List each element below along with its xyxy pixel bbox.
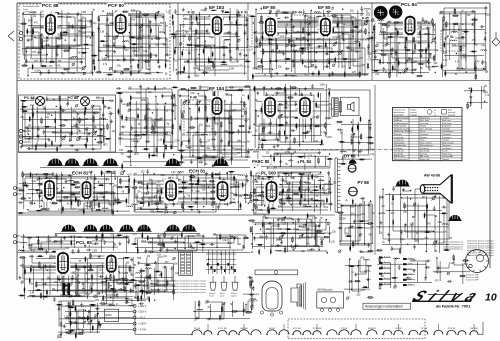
resistor <box>424 231 431 233</box>
resistor <box>329 90 331 97</box>
potentiometer <box>278 199 283 204</box>
capacitor <box>311 84 314 89</box>
resistor <box>18 295 25 297</box>
capacitor <box>406 58 409 63</box>
ground <box>176 192 179 196</box>
value label <box>28 20 33 22</box>
capacitor <box>41 197 44 202</box>
node <box>251 243 252 244</box>
value label <box>253 300 258 302</box>
capacitor <box>354 40 359 43</box>
value label <box>345 234 350 236</box>
resistor <box>228 132 235 134</box>
capacitor <box>324 66 329 69</box>
svg-text:0,1μ: 0,1μ <box>485 94 490 96</box>
resistor <box>38 99 45 101</box>
resistor <box>366 223 373 225</box>
coil <box>145 74 151 75</box>
trimmer <box>359 30 362 33</box>
node <box>308 158 309 159</box>
ground <box>282 52 285 56</box>
value label <box>126 262 129 264</box>
svg-text:2,2M: 2,2M <box>449 263 454 265</box>
coil <box>275 250 281 251</box>
node <box>283 180 284 181</box>
value label <box>462 55 467 57</box>
capacitor <box>118 288 123 291</box>
node <box>260 229 261 230</box>
wire mesh <box>441 8 486 77</box>
PABC 80 label <box>251 159 271 164</box>
resistor <box>52 188 59 190</box>
resistor <box>372 70 379 72</box>
value label <box>158 140 163 142</box>
value label <box>147 256 150 258</box>
potentiometer <box>431 196 436 201</box>
capacitor <box>253 162 258 165</box>
svg-text:100k: 100k <box>136 92 142 94</box>
ground <box>69 138 72 142</box>
resistor <box>40 65 47 67</box>
trimmer <box>222 302 225 305</box>
electrolytic <box>424 212 425 218</box>
triode ECC (sync) <box>71 170 92 200</box>
value label <box>188 196 191 198</box>
resistor <box>258 22 265 24</box>
coil <box>268 33 274 34</box>
ground <box>265 103 268 107</box>
capacitor <box>198 161 203 164</box>
svg-text:1M: 1M <box>229 123 232 125</box>
resistor <box>41 43 43 50</box>
svg-text:mit PF-Umlage: mit PF-Umlage <box>23 10 38 13</box>
resistor <box>75 196 77 203</box>
trimmer <box>250 305 253 308</box>
value label <box>429 69 432 71</box>
node <box>115 178 116 179</box>
wire mesh <box>21 98 104 149</box>
Silva logo <box>408 288 496 305</box>
capacitor <box>244 30 247 35</box>
resistor <box>380 54 387 56</box>
coil <box>126 282 132 283</box>
svg-text:2,2M: 2,2M <box>461 58 466 60</box>
value label <box>150 211 155 213</box>
value label <box>161 175 166 177</box>
value label <box>135 25 138 27</box>
value label <box>307 244 310 246</box>
resistor <box>64 285 71 287</box>
resistor <box>177 191 184 193</box>
capacitor <box>157 279 160 284</box>
wire mesh <box>197 302 246 319</box>
resistor <box>121 163 123 170</box>
wire mesh <box>138 257 174 299</box>
capacitor <box>194 117 199 120</box>
capacitor <box>99 193 104 196</box>
resistor <box>93 112 100 114</box>
capacitor <box>40 189 43 194</box>
wire bus <box>439 11 486 77</box>
svg-text:Focus: Focus <box>420 131 426 133</box>
value label <box>134 297 137 299</box>
value label <box>486 15 492 17</box>
value label <box>182 135 185 137</box>
node <box>157 72 158 73</box>
coil <box>451 40 457 41</box>
svg-text:2,2M: 2,2M <box>312 218 317 220</box>
resistor <box>38 238 40 245</box>
value label <box>118 283 123 285</box>
electrolytic <box>149 296 150 302</box>
resistor <box>98 320 100 327</box>
capacitor <box>425 260 430 263</box>
capacitor <box>159 247 162 252</box>
output pentode EL 95 <box>298 96 313 119</box>
value label <box>29 284 34 286</box>
ECH 81 second label <box>188 168 205 173</box>
value label <box>109 204 112 206</box>
capacitor <box>406 277 411 280</box>
value label <box>324 24 329 26</box>
node <box>433 231 434 232</box>
wire mesh <box>99 11 167 73</box>
capacitor <box>372 50 377 53</box>
node <box>184 248 185 249</box>
resistor <box>471 19 478 21</box>
wire junctions <box>24 25 93 74</box>
electrolytic <box>471 87 472 93</box>
electrolytic <box>393 219 394 225</box>
capacitor <box>433 206 436 211</box>
ground <box>68 46 71 50</box>
trimmer <box>375 44 378 47</box>
resistor <box>213 62 215 69</box>
capacitor <box>107 107 112 110</box>
value label <box>178 173 183 175</box>
node <box>192 155 193 156</box>
pentode EF 183 <box>208 5 225 37</box>
coil <box>29 295 35 296</box>
resistor <box>46 289 48 296</box>
capacitor <box>420 53 423 58</box>
svg-text:DY 86: DY 86 <box>395 328 402 330</box>
value label <box>324 207 329 209</box>
row divider bus <box>17 80 490 82</box>
value label <box>273 168 276 170</box>
svg-text:ECH 81: ECH 81 <box>368 328 376 330</box>
svg-text:Tonblende: Tonblende <box>394 140 404 142</box>
svg-text:Tension: Tension <box>442 159 450 161</box>
value label <box>82 17 87 19</box>
node <box>164 32 165 33</box>
focus unit blob <box>448 213 462 221</box>
resistor <box>104 138 111 140</box>
node <box>214 45 215 46</box>
flyback transformer core <box>335 158 337 212</box>
wire junctions <box>136 103 174 132</box>
resistor <box>275 193 282 195</box>
svg-text:Régl. tonalité: Régl. tonalité <box>442 141 455 144</box>
capacitor <box>277 223 280 228</box>
value label <box>156 182 161 184</box>
resistor <box>172 123 174 130</box>
resistor <box>138 281 145 283</box>
electrolytic <box>419 30 420 36</box>
coil <box>451 32 457 33</box>
capacitor <box>61 109 66 112</box>
trimmer <box>83 72 86 75</box>
node <box>56 106 57 107</box>
value label <box>390 54 393 56</box>
capacitor <box>383 67 386 72</box>
resistor <box>318 70 320 77</box>
resistor <box>91 30 93 37</box>
capacitor <box>304 14 307 19</box>
wire mesh <box>118 86 175 155</box>
trimmer <box>146 191 149 194</box>
resistor <box>398 59 400 66</box>
value label <box>64 289 69 291</box>
value label <box>193 133 198 135</box>
electrolytic <box>86 137 87 143</box>
resistor <box>211 172 213 179</box>
capacitor <box>327 171 330 176</box>
value label <box>93 127 98 129</box>
resistor <box>242 181 244 188</box>
resistor <box>284 86 286 93</box>
capacitor <box>68 174 73 177</box>
value label <box>136 197 139 199</box>
value label <box>162 180 165 182</box>
resistor <box>105 171 112 173</box>
svg-text:0,5M: 0,5M <box>35 71 40 73</box>
ground <box>103 104 106 108</box>
node <box>342 8 343 9</box>
resistor <box>279 233 286 235</box>
electrolytic <box>203 48 204 54</box>
ground <box>256 91 259 95</box>
resistor <box>90 200 97 202</box>
resistor <box>250 280 252 287</box>
capacitor <box>388 237 391 242</box>
value label <box>85 119 88 121</box>
resistor <box>124 285 126 292</box>
wire junctions <box>70 305 98 332</box>
value label <box>166 199 171 201</box>
value label <box>143 51 148 53</box>
schematic outer border right <box>489 3 491 268</box>
trimmer <box>287 188 290 191</box>
capacitor <box>273 102 276 107</box>
coil <box>197 309 203 310</box>
value label <box>51 256 56 258</box>
resistor <box>68 307 75 309</box>
resistor <box>276 43 278 50</box>
resistor <box>352 240 354 247</box>
Fabrik caption <box>436 304 471 309</box>
value label <box>45 117 50 119</box>
resistor <box>166 280 168 287</box>
resistor <box>48 61 55 63</box>
resistor <box>112 262 119 264</box>
value label <box>124 284 129 286</box>
node <box>296 38 297 39</box>
svg-text:PC 88: PC 88 <box>194 328 201 330</box>
dial caption <box>466 274 480 282</box>
wire junctions <box>173 14 238 60</box>
electrolytic <box>219 314 220 320</box>
value label <box>105 192 108 194</box>
wire bus <box>243 277 259 313</box>
resistor <box>181 202 183 209</box>
svg-text:0,5M: 0,5M <box>102 59 107 61</box>
node <box>208 186 209 187</box>
svg-text:0,1μ: 0,1μ <box>180 25 185 27</box>
triode-pentode PCL 84 <box>400 2 417 37</box>
coil <box>262 196 268 197</box>
node <box>53 99 54 100</box>
ground <box>233 236 236 240</box>
value label <box>351 206 356 208</box>
svg-text:1M: 1M <box>40 12 43 14</box>
node <box>203 206 204 207</box>
node <box>327 252 328 253</box>
coil <box>30 105 36 106</box>
electrolytic <box>270 248 271 254</box>
trimmer <box>332 64 335 67</box>
ground <box>253 51 256 55</box>
coil <box>226 95 232 96</box>
capacitor <box>274 92 279 95</box>
value label <box>340 219 345 221</box>
resistor <box>89 304 96 306</box>
wire bus <box>58 301 100 338</box>
svg-text:Klangregler: Klangregler <box>394 141 405 144</box>
resistor <box>393 22 400 24</box>
value label <box>229 23 234 25</box>
value label <box>317 107 322 109</box>
value label <box>58 61 63 63</box>
resistor <box>37 248 44 250</box>
wire mesh <box>254 216 332 253</box>
value label <box>351 50 356 52</box>
value label <box>327 189 330 191</box>
value label <box>164 286 167 288</box>
resistor <box>83 44 90 46</box>
ground <box>290 18 293 22</box>
ground <box>261 176 264 180</box>
ground <box>65 180 68 184</box>
FM speaker <box>291 282 305 310</box>
value label <box>255 100 258 102</box>
resistor <box>282 12 289 14</box>
electrolytic <box>212 51 213 57</box>
node <box>255 110 256 111</box>
svg-text:100k: 100k <box>159 32 165 34</box>
resistor <box>34 189 41 191</box>
resistor <box>171 87 178 89</box>
value label <box>118 138 123 140</box>
capacitor <box>75 123 78 128</box>
value label <box>121 283 126 285</box>
svg-text:EF 80: EF 80 <box>263 5 276 10</box>
electrolytic <box>264 197 265 203</box>
node <box>410 190 411 191</box>
resistor <box>17 212 24 214</box>
capacitor <box>337 129 342 132</box>
resistor <box>325 122 327 129</box>
wire mesh <box>468 86 484 106</box>
capacitor <box>223 178 226 183</box>
node <box>304 200 305 201</box>
capacitor <box>367 44 370 49</box>
main horizontal bus y233 <box>55 233 200 235</box>
value label <box>165 262 170 264</box>
resistor <box>182 112 184 119</box>
value label <box>408 58 411 60</box>
coil <box>432 66 438 67</box>
resistor <box>288 38 290 45</box>
resistor <box>102 98 104 105</box>
svg-text:PCC 88: PCC 88 <box>42 3 59 8</box>
potentiometer <box>113 35 118 40</box>
trimmer <box>303 204 306 207</box>
capacitor <box>134 140 139 143</box>
electrolytic <box>172 14 173 20</box>
electrolytic <box>29 277 30 283</box>
resistor <box>353 26 360 28</box>
value label <box>461 58 466 60</box>
capacitor <box>199 85 202 90</box>
value label <box>115 11 118 13</box>
IF amplifier enclosure <box>178 90 370 150</box>
resistor <box>397 29 399 36</box>
value label <box>434 63 439 65</box>
resistor <box>38 183 45 185</box>
svg-text:2,2M: 2,2M <box>351 61 356 63</box>
resistor <box>425 47 427 54</box>
node <box>183 196 184 197</box>
value label <box>443 53 448 55</box>
resistor <box>32 111 34 118</box>
capacitor <box>86 249 91 252</box>
node <box>254 167 255 168</box>
node <box>223 149 224 150</box>
resistor <box>196 15 198 22</box>
capacitor <box>65 257 70 260</box>
picture tube AW 43-88 <box>420 174 452 204</box>
svg-text:B250: B250 <box>106 313 113 317</box>
svg-text:F 44: F 44 <box>295 11 302 15</box>
resistor <box>426 203 428 210</box>
capacitor <box>157 59 160 64</box>
resistor <box>367 142 374 144</box>
value label <box>229 123 232 125</box>
capacitor <box>113 255 116 260</box>
wire junctions <box>23 237 115 248</box>
capacitor <box>412 69 417 72</box>
capacitor <box>366 278 371 281</box>
value label <box>33 48 38 50</box>
trimmer <box>276 33 279 36</box>
node <box>456 53 457 54</box>
capacitor <box>425 266 430 269</box>
wire bus <box>134 171 246 214</box>
capacitor <box>82 282 85 287</box>
value label <box>25 128 30 130</box>
ground <box>117 198 120 202</box>
